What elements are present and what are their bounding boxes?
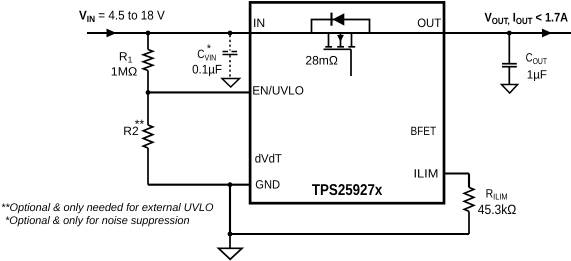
wire: OUT to VOUT (444, 32, 571, 34)
svg-text:EN/UVLO: EN/UVLO (252, 84, 304, 98)
ground symbol COUT (502, 85, 518, 94)
svg-text:*Optional & only for noise sup: *Optional & only for noise suppression (5, 215, 190, 227)
wire: EN/UVLO pin (148, 91, 250, 93)
svg-text:TPS25927x: TPS25927x (312, 182, 383, 199)
wire: body-diode loop (312, 20, 370, 34)
FET body arrow (337, 35, 344, 42)
wire: internal IN-OUT rail (250, 32, 444, 34)
svg-text:ILIM: ILIM (414, 167, 439, 181)
IC U1 TPS25927x box (250, 2, 444, 203)
node: junction VIN/R1 (146, 31, 151, 36)
resistor RILIM (464, 187, 474, 234)
ground symbol (main) (219, 234, 243, 259)
svg-text:dVdT: dVdT (255, 152, 283, 166)
capacitor CVIN (optional, dashed) (223, 35, 238, 78)
input current-flow arrow (107, 29, 117, 38)
resistor R2 (143, 92, 153, 184)
node: COUT tap (507, 31, 512, 36)
svg-text:28mΩ: 28mΩ (305, 54, 338, 68)
svg-text:IN: IN (253, 16, 265, 30)
ground symbol CVIN (222, 79, 240, 88)
node: bottom rail junction (228, 232, 233, 237)
svg-text:R2: R2 (123, 124, 139, 138)
resistor R1 (143, 33, 153, 92)
svg-text:**Optional & only needed for e: **Optional & only needed for external UV… (1, 202, 214, 214)
svg-text:45.3kΩ: 45.3kΩ (478, 202, 517, 217)
svg-text:*: * (207, 43, 212, 55)
wire: ILIM pin to RILIM (444, 174, 469, 188)
diode D1 (body diode) (332, 13, 345, 26)
node: GND wire junction (228, 182, 233, 187)
svg-text:BFET: BFET (411, 124, 437, 138)
wire: GND down to bottom rail (229, 185, 231, 234)
capacitor COUT (502, 33, 517, 84)
wire: GND pin (148, 184, 250, 186)
svg-text:0.1µF: 0.1µF (192, 62, 222, 76)
svg-text:1MΩ: 1MΩ (111, 65, 138, 79)
wire: bottom rail to RILIM (230, 233, 469, 235)
wire: VIN input to IN pin (87, 32, 250, 34)
svg-text:1µF: 1µF (527, 67, 547, 81)
svg-text:OUT: OUT (417, 16, 442, 30)
transistor Q1 internal FET (324, 33, 356, 76)
output current-flow arrow (542, 29, 552, 38)
node: CVIN tap (228, 31, 233, 36)
svg-text:GND: GND (255, 178, 280, 192)
node: junction R1/R2/EN (146, 90, 151, 95)
